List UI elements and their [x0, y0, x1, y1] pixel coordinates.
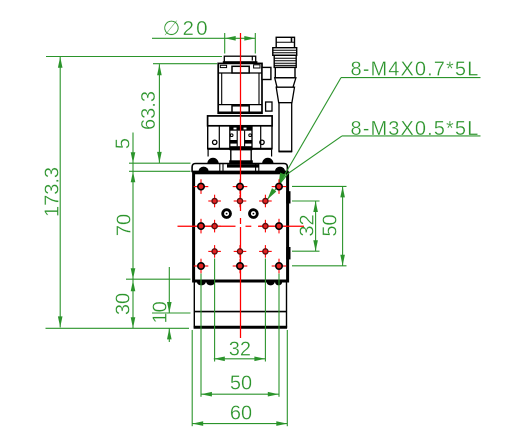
callout 8-M3X0.5*5L — [267, 118, 480, 199]
hole M3 #2 — [234, 195, 247, 208]
top plate (moving table) — [192, 164, 287, 172]
base block — [194, 282, 288, 327]
svg-text:32: 32 — [229, 339, 251, 361]
holes — [194, 179, 287, 273]
dim 63.3 — [138, 64, 217, 163]
bracket housing — [208, 126, 272, 150]
svg-text:32: 32 — [297, 214, 319, 236]
svg-text:70: 70 — [113, 214, 135, 236]
hole M4 #3 — [272, 179, 287, 194]
svg-text:30: 30 — [113, 293, 135, 315]
vertical centerline — [240, 33, 242, 338]
hole M4 #4 — [194, 219, 209, 234]
svg-text:63.3: 63.3 — [138, 91, 160, 130]
main body — [194, 173, 288, 281]
dim ⌀20 — [152, 17, 255, 54]
horizontal centerline — [178, 225, 305, 227]
bottom bumps — [197, 282, 282, 285]
dim 50 bottom — [201, 372, 279, 396]
hole M3 #1 — [208, 195, 221, 208]
svg-text:5: 5 — [113, 138, 135, 149]
svg-text:8-M3X0.5*5L: 8-M3X0.5*5L — [351, 118, 480, 140]
dim 10 — [149, 267, 190, 342]
svg-text:8-M4X0.7*5L: 8-M4X0.7*5L — [351, 58, 480, 80]
cap screw #2 — [250, 210, 258, 218]
motor body — [218, 63, 272, 114]
callout 8-M4X0.7*5L — [278, 58, 480, 185]
dim 32 right — [292, 201, 320, 251]
hole M4 #6 — [194, 259, 209, 274]
cap screw #1 — [223, 210, 231, 218]
hole M3 #3 — [259, 195, 272, 208]
hole M3 #5 — [259, 220, 272, 233]
dim 173.3 — [42, 57, 222, 329]
dim 32 bottom — [214, 339, 266, 362]
dim 70 — [113, 214, 190, 279]
right edge ticks — [286, 191, 290, 259]
svg-text:60: 60 — [230, 403, 252, 425]
hole M4 #2 — [233, 179, 248, 194]
hole M4 #8 — [272, 259, 287, 274]
svg-text:10: 10 — [149, 301, 171, 323]
motor mount plate — [208, 116, 273, 126]
extension lines bottom columns — [192, 259, 287, 427]
hole M4 #5 — [272, 219, 287, 234]
dim 30 — [113, 280, 136, 328]
dim 5 — [113, 133, 191, 329]
dim 60 bottom — [192, 403, 287, 426]
hole M3 #4 — [208, 220, 221, 233]
hole M3 #8 — [259, 245, 272, 258]
connector plug — [273, 37, 297, 151]
dim 50 right — [292, 186, 347, 265]
motor boss cap (⌀20) — [223, 56, 258, 64]
svg-text:50: 50 — [230, 372, 252, 394]
hole M4 #1 — [194, 179, 209, 194]
svg-text:173.3: 173.3 — [42, 167, 64, 217]
hole M3 #7 — [234, 245, 247, 258]
svg-text:∅20: ∅20 — [163, 17, 210, 40]
table top bumps — [207, 158, 273, 164]
hole M4 #7 — [233, 259, 248, 274]
hole M3 #6 — [208, 245, 221, 258]
svg-text:50: 50 — [320, 214, 342, 236]
screw column — [208, 150, 272, 164]
